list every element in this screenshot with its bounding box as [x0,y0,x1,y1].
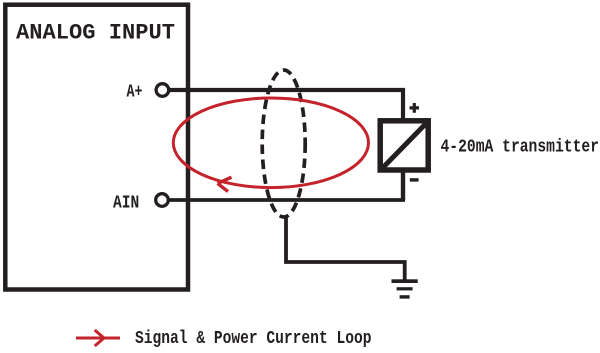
label - (transmitter negative) [410,178,419,181]
svg-text:ANALOG INPUT: ANALOG INPUT [16,20,175,45]
current loop (red ellipse) [173,98,368,188]
wire A+ to transmitter [169,90,403,121]
wire AIN to transmitter [169,198,405,202]
wire transmitter bottom stub [401,170,405,200]
svg-text:A+: A+ [127,83,143,103]
transmitter diagonal [383,124,426,168]
ground bar 1 [392,279,418,283]
shield ellipse (dashed) [262,70,305,217]
legend arrow [76,330,120,346]
terminal AIN circle [156,194,169,207]
analog input box [5,5,188,290]
terminal A+ circle [156,84,169,97]
svg-text:AIN: AIN [113,194,139,214]
svg-text:Signal & Power Current Loop: Signal & Power Current Loop [135,329,372,349]
ground bar 3 [400,295,410,298]
svg-text:4-20mA transmitter: 4-20mA transmitter [441,137,600,157]
ground bar 2 [397,287,413,290]
label + (transmitter positive) [410,103,420,113]
current loop arrowhead [218,177,232,191]
wire shield to ground [286,217,405,281]
transmitter U1 box [380,121,428,170]
